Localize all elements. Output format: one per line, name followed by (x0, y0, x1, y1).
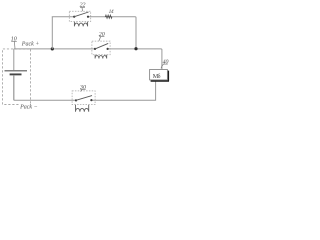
motor 40 (150, 70, 169, 82)
wire top row: branch to relay 22 (52, 16, 74, 18)
wire bottom row: relay 30 to motor bottom vertical (91, 81, 155, 100)
relay 30 right contact dot (90, 99, 92, 101)
leader 22 (81, 8, 84, 12)
leader 20 (99, 37, 101, 41)
battery cell long plate (5, 70, 28, 72)
battery pack 10 dashed box (3, 49, 31, 105)
relay 22 coil (74, 22, 87, 27)
motor box shadow (167, 71, 169, 82)
wire pack internal vertical top (13, 49, 15, 70)
relay 20 left contact dot (94, 48, 96, 50)
node A junction dot (51, 47, 54, 50)
wire pack internal vertical bottom (13, 75, 15, 100)
relay 30 switch arm (76, 96, 92, 101)
motor box (150, 70, 168, 80)
svg-text:22: 22 (80, 3, 86, 9)
relay 30 dashed box (72, 91, 95, 105)
wire top row: relay 22 to resistor (88, 16, 105, 18)
relay 22 (69, 11, 90, 26)
leader 10 (13, 42, 16, 49)
svg-text:δ: δ (158, 74, 161, 80)
svg-text:10: 10 (11, 37, 17, 43)
relay 22 switch arm (74, 12, 88, 17)
relay 30 coil (76, 105, 89, 112)
svg-text:Pack −: Pack − (19, 104, 38, 110)
leader 40 (161, 64, 163, 68)
relay 22 dashed box (69, 11, 90, 21)
wire middle row: pack+ to relay 20 (14, 48, 95, 50)
wire middle row: relay 20 to right corner, down to motor top (108, 49, 162, 70)
relay 20 right contact dot (107, 48, 109, 50)
relay 20 (92, 41, 110, 58)
wire precharge branch left vertical (51, 17, 53, 49)
wire top row: resistor to corner, down to node B (112, 17, 136, 49)
svg-text:Pack +: Pack + (21, 41, 40, 47)
relay 20 coil (95, 55, 107, 59)
svg-text:20: 20 (99, 32, 105, 38)
resistor 14 zigzag (105, 15, 112, 18)
relay 30 left contact dot (75, 99, 77, 101)
leader 30 (81, 90, 83, 92)
relay 30 (72, 91, 95, 112)
wire bottom row: pack- corner to relay 30 (14, 75, 76, 100)
svg-text:14: 14 (109, 9, 114, 15)
relay 20 switch arm (95, 43, 108, 49)
relay 20 dashed box (92, 41, 110, 55)
relay 22 left contact dot (73, 16, 75, 18)
relay 22 right contact dot (87, 16, 89, 18)
battery cell short plate (10, 73, 22, 75)
svg-text:40: 40 (163, 59, 169, 65)
svg-text:30: 30 (79, 85, 86, 91)
node B junction dot (134, 47, 137, 50)
